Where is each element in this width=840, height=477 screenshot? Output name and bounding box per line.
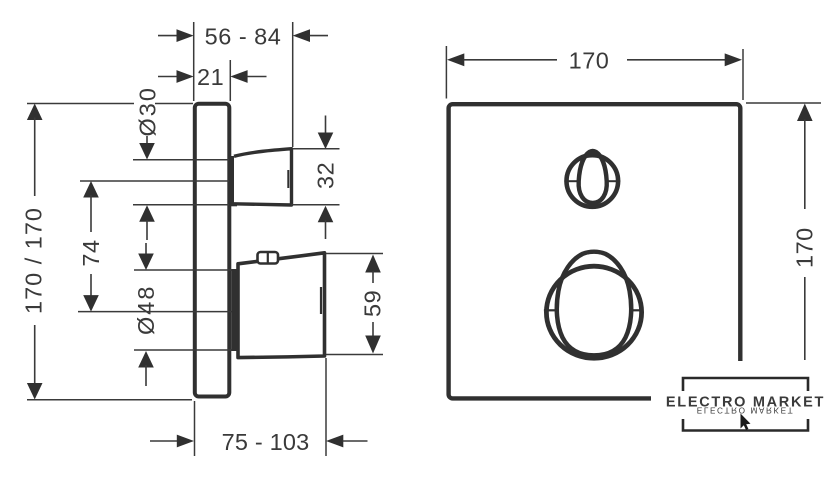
small symbol mid ticks [564,180,578,182]
leader line y=204.8 (O30 bottom) [133,204,235,206]
bottom knob bottom extension to 59 (y=354.5) [326,354,383,356]
front 170 horizontal: left extension [445,46,447,99]
svg-text:59: 59 [360,290,386,317]
front 170 vertical: top extension y=103 [746,102,821,104]
front 170 horizontal: right extension [742,49,744,100]
dimension 170/170: bottom extension y=399.8 [27,399,192,401]
dimension 32 arrows + text [325,116,327,136]
top knob neck (dark strip) [229,156,237,206]
wall plate (side view) [195,104,230,397]
dimension 75-103: left extension x=194.5 [194,401,196,456]
extension line x=292.7 (56-84 right) [292,22,294,147]
svg-text:170 / 170: 170 / 170 [21,207,47,314]
top knob top extension to 32 (y=148.8) [293,148,340,150]
small select symbol: outer circle [567,155,619,207]
svg-text:ELECTRO MARKET: ELECTRO MARKET [697,406,794,415]
dimension 21 line + arrows [158,76,177,78]
dimension 59 arrows + text [365,255,381,273]
svg-text:75 - 103: 75 - 103 [222,429,310,455]
svg-text:170: 170 [791,227,817,268]
front plate [449,104,741,398]
svg-text:Ø30: Ø30 [135,86,161,136]
bottom knob top extension to 59 (y=253.5) [326,253,383,255]
extension line x=193.7 top (56-84 / 21 left) [193,22,195,101]
svg-text:32: 32 [313,162,339,189]
top knob body [234,149,292,205]
dimension 74 line + arrows + text [83,181,99,198]
bottom knob inner lip [320,287,322,314]
O48 up arrow [138,351,154,368]
watermark white box [651,361,840,449]
dimension 75-103: right extension x=326 [325,358,327,456]
bottom knob button [258,252,279,264]
O48 down arrow [145,243,147,256]
large select symbol: drop [557,252,631,356]
leader line y=181 (74 top) [80,180,232,182]
leader line y=350 (O48 bottom) [134,349,238,351]
top knob inner lip [287,170,289,188]
svg-text:56 - 84: 56 - 84 [205,24,282,50]
leader line y=311.6 (74 bottom) [78,311,238,313]
front 170 vertical dimension line + arrow + text [797,104,813,122]
svg-text:170: 170 [569,48,610,74]
bottom knob body [238,253,325,358]
top knob bottom extension to 32 (y=204.8) [291,204,340,206]
logo frame bottom [683,419,808,431]
extension line x=230.3 (21 right) [229,60,231,101]
front 170 horizontal dimension line + arrows + text [447,53,464,66]
bottom knob neck (dark strip) [231,269,241,351]
logo frame top [683,378,808,391]
large select symbol: outer circle [546,266,641,358]
dimension 56-84 line + arrows [158,35,177,37]
dimension 170/170 line + arrows + text [27,104,43,121]
svg-text:21: 21 [197,64,224,90]
O30 down arrow [146,136,148,146]
leader line y=159.5 (O30 top, crosses plate) [133,159,232,161]
large symbol mid ticks [544,309,558,311]
svg-text:Ø48: Ø48 [133,285,159,335]
O30 up arrow [139,205,155,222]
dimension 170/170: top extension y=103.5 [27,103,134,105]
small select symbol: drop [579,151,607,203]
dimension 75-103 line + arrows + text [150,440,180,442]
svg-text:74: 74 [78,239,104,266]
leader line y=270 (O48 top) [134,269,238,271]
mouse cursor [741,414,751,431]
